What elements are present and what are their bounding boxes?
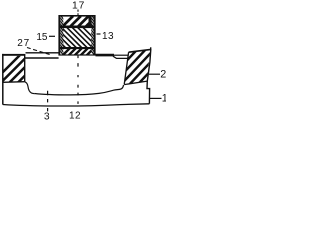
top strip right corner fill xyxy=(89,16,92,25)
svg-text:27: 27 xyxy=(17,38,30,49)
label 17 xyxy=(72,1,85,16)
left figure border xyxy=(2,54,4,105)
bottom edge xyxy=(59,54,96,55)
central block inner hatch (region 15) xyxy=(44,26,104,48)
thick surface line right of block xyxy=(96,54,115,57)
label 15 with dash xyxy=(36,32,55,43)
step down to lower right line xyxy=(113,56,129,58)
svg-text:12: 12 xyxy=(69,110,81,120)
label 3 with dash-dot leader xyxy=(44,91,50,123)
middle solid bar upper xyxy=(59,26,96,29)
svg-text:2: 2 xyxy=(160,69,166,81)
left wall xyxy=(58,14,64,56)
left corner block (contact) xyxy=(0,54,46,84)
svg-text:15: 15 xyxy=(36,32,48,43)
svg-text:17: 17 xyxy=(72,1,85,12)
label 1 with leader xyxy=(150,92,168,104)
svg-text:13: 13 xyxy=(102,31,114,42)
svg-text:3: 3 xyxy=(44,112,50,121)
right corner block (contact, region 2) xyxy=(105,46,175,85)
step below left block xyxy=(25,82,35,94)
central block top strip hatch (cap 17) xyxy=(58,16,104,31)
surface line left (lower) xyxy=(25,57,59,59)
right figure border with jog xyxy=(147,49,151,104)
top corner stub xyxy=(150,47,152,50)
label 13 with dash xyxy=(97,31,114,42)
middle solid bar lower xyxy=(59,47,96,49)
label 27 with dashed leader xyxy=(17,38,52,55)
thin continuation of surface film line xyxy=(114,54,129,56)
label 12 with dash-dot leader xyxy=(69,55,81,122)
svg-text:1: 1 xyxy=(162,92,166,104)
top edge xyxy=(59,15,96,17)
interface line (bottom of layer 3) xyxy=(35,85,124,95)
right wall xyxy=(91,14,96,56)
bottom border of substrate xyxy=(3,104,150,106)
label 2 with leader xyxy=(149,69,167,81)
central block outer shell xyxy=(58,14,95,56)
surface film line left (upper) xyxy=(26,52,59,54)
central block bottom strip hatch xyxy=(58,48,100,60)
